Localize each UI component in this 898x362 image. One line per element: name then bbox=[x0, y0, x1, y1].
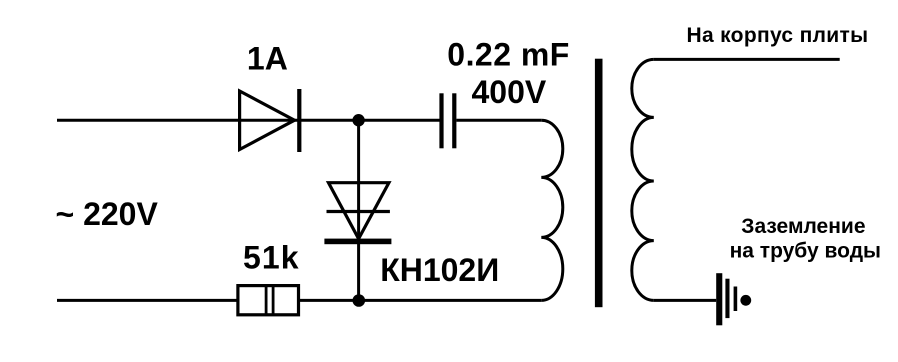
svg-text:~ 220V: ~ 220V bbox=[56, 196, 159, 232]
ground electrode dot bbox=[740, 295, 751, 306]
wire secondary top to stove body bbox=[654, 58, 840, 61]
svg-text:КН102И: КН102И bbox=[380, 252, 499, 288]
transformer secondary winding bbox=[632, 59, 654, 300]
node A junction dot bbox=[352, 114, 364, 126]
svg-text:1A: 1A bbox=[247, 41, 288, 77]
ground electrode bar 2 bbox=[725, 279, 729, 318]
svg-text:на трубу воды: на трубу воды bbox=[730, 239, 881, 262]
ground electrode bar 1 bbox=[716, 273, 722, 325]
svg-text:0.22 mF: 0.22 mF bbox=[447, 37, 569, 73]
transformer T1 primary winding bbox=[541, 120, 563, 300]
svg-text:400V: 400V bbox=[472, 74, 547, 110]
diode VD1 bbox=[240, 89, 302, 152]
wire bottom input from left to primary coil bbox=[57, 299, 541, 302]
ground electrode bar 3 bbox=[734, 287, 738, 312]
node B junction dot bbox=[353, 294, 366, 307]
svg-text:На корпус плиты: На корпус плиты bbox=[687, 24, 869, 47]
capacitor C1 plates bbox=[439, 93, 456, 148]
dinistor VS1 KH102I bbox=[324, 183, 391, 245]
resistor R1 body bbox=[238, 284, 299, 316]
wire capacitor to primary coil bbox=[456, 119, 541, 122]
svg-text:Заземление: Заземление bbox=[741, 215, 865, 238]
transformer core bbox=[595, 59, 603, 308]
svg-text:51k: 51k bbox=[243, 240, 299, 276]
wire secondary bottom to ground bbox=[654, 299, 716, 302]
wire vertical branch node A to node B bbox=[357, 120, 360, 300]
wire top input from left to capacitor bbox=[57, 119, 440, 122]
